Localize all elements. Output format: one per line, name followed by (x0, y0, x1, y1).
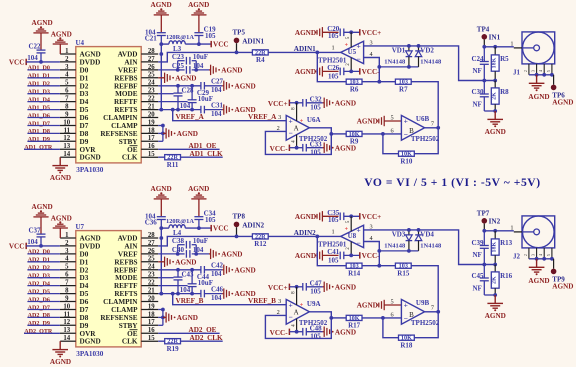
svg-text:23: 23 (148, 272, 155, 279)
svg-text:18: 18 (148, 127, 155, 134)
junction divider mid (482, 263, 486, 267)
svg-text:OVR: OVR (80, 330, 97, 338)
svg-text:11: 11 (64, 127, 71, 134)
svg-text:104: 104 (211, 86, 222, 94)
svg-text:NF: NF (473, 285, 482, 293)
svg-text:D4: D4 (80, 98, 89, 106)
svg-text:AD1_D0: AD1_D0 (28, 66, 50, 72)
svg-text:AD1_D5: AD1_D5 (28, 105, 50, 111)
svg-text:C32: C32 (310, 96, 323, 104)
junction pin4/diode rail (377, 249, 381, 253)
wire diode clamp rail (379, 66, 418, 68)
power port AGND (C23/C25) (209, 69, 210, 71)
U4 pin 19 stub (141, 125, 158, 127)
svg-text:15: 15 (148, 151, 155, 158)
svg-text:11: 11 (64, 311, 71, 318)
svg-text:IN2: IN2 (489, 218, 501, 226)
svg-text:−: − (288, 128, 292, 137)
svg-text:DVDD: DVDD (80, 58, 101, 66)
capacitor C31 104 (200, 106, 202, 114)
U7 pin 2 stub (60, 245, 76, 247)
svg-text:AGND: AGND (295, 29, 316, 37)
svg-text:AGND: AGND (50, 358, 71, 366)
svg-text:C30: C30 (472, 88, 485, 96)
U4 pin 27 stub (141, 61, 158, 63)
svg-text:5: 5 (547, 254, 551, 256)
resistor R13 18K (494, 231, 496, 239)
svg-text:AGND: AGND (357, 302, 378, 310)
svg-text:5: 5 (390, 115, 393, 122)
U6A pin 8 stub (296, 103, 298, 121)
U4 pin 21 stub (141, 109, 158, 111)
U7 pin 28 stub (141, 237, 158, 239)
svg-text:−: − (357, 54, 361, 63)
svg-text:24: 24 (148, 264, 155, 271)
svg-text:DVDD: DVDD (80, 242, 101, 250)
svg-text:CLAMPIN: CLAMPIN (103, 114, 138, 122)
svg-text:9: 9 (65, 295, 69, 302)
svg-text:3: 3 (278, 114, 281, 121)
svg-text:AD2_D4: AD2_D4 (28, 281, 50, 287)
wire VREF_A (173, 110, 287, 121)
svg-text:7: 7 (65, 280, 69, 287)
inductor L3 120R@1A (169, 41, 185, 44)
svg-text:AGND: AGND (485, 128, 506, 136)
svg-text:D1: D1 (80, 74, 89, 82)
svg-text:CLAMP: CLAMP (111, 306, 138, 314)
svg-text:ADIN1: ADIN1 (294, 45, 316, 53)
wire AD2_D0 (27, 253, 60, 255)
svg-text:C36: C36 (145, 219, 158, 227)
svg-text:16: 16 (148, 143, 155, 150)
resistor R11 22R (165, 155, 181, 160)
power port VCC (left) (25, 59, 27, 65)
wire IN1 node (484, 46, 514, 48)
svg-text:18K: 18K (491, 241, 497, 252)
wire AVDD riser to pin 28 (160, 44, 162, 110)
svg-text:AD1_D2: AD1_D2 (28, 82, 50, 88)
svg-text:26: 26 (148, 248, 155, 255)
svg-text:AD1_D9: AD1_D9 (28, 137, 50, 143)
svg-text:AVDD: AVDD (118, 51, 138, 59)
U4 pin 28 stub (141, 53, 158, 55)
resistor R15 103 (395, 263, 411, 268)
capacitor C28 104 (177, 86, 179, 93)
resistor R14 103 (346, 263, 362, 268)
svg-text:AD2_D2: AD2_D2 (28, 266, 50, 272)
svg-text:REFBS: REFBS (114, 74, 137, 82)
capacitor C26 105 (339, 68, 341, 76)
svg-text:105: 105 (310, 332, 321, 340)
U7 pin 24 stub (141, 269, 158, 271)
U7 pin 23 stub (141, 277, 158, 279)
resistor R19 22R (165, 339, 181, 344)
junction pin5/C20 (349, 214, 353, 218)
junction R9/R10/pin6 (381, 316, 385, 320)
junction R9/R10/pin6 (381, 132, 385, 136)
svg-text:B: B (409, 311, 414, 319)
wire AD1_D3 (27, 93, 60, 95)
power port VCC+ (U5) (359, 29, 361, 35)
U4 pin 5 stub (60, 85, 76, 87)
svg-text:3: 3 (65, 248, 69, 255)
svg-text:VCC-: VCC- (362, 68, 381, 76)
svg-text:1: 1 (510, 224, 513, 231)
power port AGND (REFSENSE) (163, 132, 166, 134)
svg-text:VCC+: VCC+ (268, 284, 288, 292)
svg-text:105: 105 (310, 148, 321, 156)
svg-text:8: 8 (65, 104, 69, 111)
U7 pin 1 stub (60, 237, 76, 239)
svg-text:C41: C41 (327, 248, 340, 256)
svg-text:REFTF: REFTF (114, 282, 138, 290)
svg-text:10: 10 (63, 119, 70, 126)
junctions REFTS row (171, 108, 175, 112)
wire V+ rail U5 (344, 31, 360, 33)
svg-text:U4: U4 (76, 39, 85, 47)
svg-text:105: 105 (328, 216, 339, 224)
svg-text:8: 8 (65, 288, 69, 295)
wire REFBF pin 24 row (158, 269, 201, 271)
svg-text:AD1_D1: AD1_D1 (28, 74, 50, 80)
U8 pin 2 stub (350, 242, 352, 256)
svg-text:R17: R17 (348, 322, 361, 330)
capacitor C37 104 (37, 233, 46, 235)
junction AVDD pin 28 (159, 236, 163, 240)
svg-text:REFTS: REFTS (114, 290, 137, 298)
capacitor C23 10uF (185, 57, 187, 65)
svg-text:2: 2 (65, 56, 69, 63)
svg-text:REFTS: REFTS (114, 106, 137, 114)
svg-text:AIN: AIN (124, 58, 138, 66)
ground AGND (divider) (494, 111, 496, 119)
svg-text:C24: C24 (472, 55, 485, 63)
svg-text:TPH2502: TPH2502 (411, 135, 440, 143)
svg-text:U5: U5 (348, 48, 357, 56)
svg-text:D8: D8 (80, 314, 89, 322)
svg-text:9: 9 (65, 111, 69, 118)
U7 pin 6 stub (60, 277, 76, 279)
svg-text:R16: R16 (500, 272, 513, 280)
U7 pin 26 stub (141, 253, 158, 255)
svg-text:+: + (300, 303, 304, 309)
diode VD2 1N4148 (418, 46, 420, 51)
capacitor C40 104 (185, 250, 187, 258)
power port AGND (REFBS pin 25) (158, 261, 164, 263)
wire R6 to input node (317, 236, 346, 265)
svg-text:19: 19 (148, 303, 155, 310)
svg-text:+: + (288, 301, 292, 310)
resistor R6 103 (346, 79, 362, 84)
svg-text:+: + (357, 225, 361, 234)
svg-text:D5: D5 (80, 290, 89, 298)
wire AD1_D6 (27, 117, 60, 119)
wire REFTF pin 22 (158, 285, 187, 287)
svg-text:NF: NF (473, 101, 482, 109)
U4 pin 15 stub (141, 156, 158, 158)
svg-text:105: 105 (310, 288, 321, 296)
junction riser / REFTS row (159, 108, 163, 112)
wire U6B output (425, 127, 439, 129)
wire V+ rail U6A (289, 286, 302, 288)
U4 pin 8 stub (60, 109, 76, 111)
svg-text:27: 27 (148, 56, 155, 63)
power port VCC+ (U5) (359, 213, 361, 219)
svg-text:AVDD: AVDD (118, 235, 138, 243)
svg-text:R6: R6 (350, 85, 359, 93)
svg-text:21: 21 (148, 104, 155, 111)
svg-text:ADIN2: ADIN2 (242, 221, 264, 229)
svg-text:AGND: AGND (235, 82, 256, 90)
svg-text:TP7: TP7 (477, 210, 490, 218)
svg-text:D6: D6 (80, 298, 89, 306)
power port VCC (AVDD rail) (210, 41, 212, 47)
svg-text:VCC+: VCC+ (362, 213, 382, 221)
svg-text:2: 2 (524, 70, 528, 72)
wire R7 to offset node (411, 82, 438, 128)
wire V+ rail U6A (289, 102, 302, 104)
wire AD2_D1 (27, 261, 60, 263)
svg-text:R15: R15 (397, 269, 410, 277)
svg-text:AGND: AGND (335, 328, 356, 336)
resistor R16 2K (494, 265, 496, 272)
svg-text:AGND: AGND (80, 235, 101, 243)
J2 ground pins (528, 248, 530, 259)
op-amp U8 TPH2501 (341, 225, 364, 247)
svg-text:B: B (409, 127, 414, 135)
wire REFTF pin 22 (158, 101, 187, 103)
svg-text:AD2_D1: AD2_D1 (28, 258, 50, 264)
svg-text:VCC+: VCC+ (268, 100, 288, 108)
svg-text:C37: C37 (29, 227, 42, 235)
svg-text:21: 21 (148, 288, 155, 295)
capacitor C44 10uF (191, 270, 193, 284)
svg-text:15: 15 (148, 335, 155, 342)
svg-text:1: 1 (65, 232, 69, 239)
svg-text:C45: C45 (472, 272, 485, 280)
junction AVDD pin 28 (159, 52, 163, 56)
svg-text:CLAMP: CLAMP (111, 122, 138, 130)
power port AGND (C27) (222, 85, 223, 87)
svg-text:AGND: AGND (528, 93, 549, 101)
resistor R12 22R (252, 234, 268, 239)
svg-text:VREF_A: VREF_A (176, 113, 205, 121)
svg-text:D0: D0 (80, 66, 89, 74)
wire AD2_CLK (158, 340, 223, 342)
svg-text:VREF_B: VREF_B (176, 297, 204, 305)
svg-text:AD1_D3: AD1_D3 (28, 90, 50, 96)
svg-text:R5: R5 (500, 55, 509, 63)
svg-text:VD2: VD2 (420, 47, 434, 55)
U4 pin 13 stub (60, 148, 76, 150)
diode VD4 1N4148 (418, 230, 420, 235)
svg-text:10uF: 10uF (193, 237, 208, 245)
wire IN2 node (484, 230, 514, 232)
wire CLAMP/REFSENSE/STBY tie (158, 125, 163, 127)
U4 pin 20 stub (141, 117, 158, 119)
svg-text:7: 7 (65, 96, 69, 103)
svg-text:TPH2502: TPH2502 (411, 319, 440, 327)
power port VCC (left) (25, 243, 27, 249)
svg-text:105: 105 (310, 104, 321, 112)
svg-text:1N4148: 1N4148 (384, 58, 406, 65)
junction pin8/C32 (295, 285, 299, 289)
junction riser / REFTS row (159, 292, 163, 296)
U7 pin 15 stub (141, 340, 158, 342)
U7 pin 17 stub (141, 324, 158, 326)
junction pin4/R6-R7 rail (377, 264, 381, 268)
wire AD1_D9 (27, 140, 60, 142)
svg-text:D3: D3 (80, 274, 89, 282)
wire AD2_D7 (27, 309, 60, 311)
svg-text:VO = VI / 5 + 1 (VI : -5V ~ +5: VO = VI / 5 + 1 (VI : -5V ~ +5V) (364, 176, 540, 189)
svg-text:ADIN2: ADIN2 (294, 229, 316, 237)
ground AGND (DGND pin 14) (59, 341, 61, 349)
svg-text:AD1_D4: AD1_D4 (28, 97, 50, 103)
svg-text:104: 104 (193, 62, 204, 70)
ground AGND (connector) (536, 259, 538, 268)
svg-text:12: 12 (63, 319, 70, 326)
svg-text:28: 28 (148, 48, 155, 55)
svg-text:OE: OE (127, 146, 138, 154)
svg-text:AGND: AGND (188, 185, 209, 193)
resistor R7 103 (395, 79, 411, 84)
wire AD1_D1 (27, 77, 60, 79)
U7 pin 7 stub (60, 285, 76, 287)
U4 pin 12 stub (60, 140, 76, 142)
wire VCC to DVDD pin 2 (26, 245, 60, 247)
svg-text:19: 19 (148, 119, 155, 126)
svg-text:3: 3 (532, 70, 536, 72)
svg-text:1N4148: 1N4148 (420, 58, 442, 65)
U7 pin 16 stub (141, 332, 158, 334)
junction diode bottom VD1 (407, 65, 411, 69)
svg-text:6: 6 (65, 88, 69, 95)
capacitor C20 105 (339, 29, 341, 37)
svg-text:TP5: TP5 (233, 28, 246, 36)
inductor L4 120R@1A (169, 225, 185, 228)
wire AD1_OE (158, 148, 219, 150)
svg-text:1: 1 (332, 229, 335, 236)
junction U6A out/R9 (329, 132, 333, 136)
svg-text:3: 3 (532, 254, 536, 256)
svg-text:NF: NF (473, 67, 482, 75)
svg-text:AGND: AGND (175, 74, 196, 82)
U7 pin 14 stub (60, 340, 76, 342)
svg-text:VREF: VREF (118, 250, 138, 258)
U5 pin 5 stub (350, 32, 352, 47)
svg-text:D6: D6 (80, 114, 89, 122)
op-amp U9A TPH2502 (286, 299, 309, 324)
wire AD2_D5 (27, 293, 60, 295)
junction C22/VCC/DVDD (39, 244, 43, 248)
junction pin2/C26 (349, 254, 353, 258)
svg-text:R10: R10 (400, 157, 413, 165)
svg-text:AGND: AGND (235, 266, 256, 274)
U4 pin 3 stub (60, 69, 76, 71)
svg-text:+: + (345, 42, 349, 48)
svg-text:C48: C48 (310, 324, 323, 332)
svg-text:R18: R18 (400, 341, 413, 349)
capacitor C32 105 (302, 99, 304, 107)
svg-text:AD1_OTR: AD1_OTR (24, 145, 53, 151)
svg-text:104: 104 (193, 246, 204, 254)
svg-text:AGND: AGND (221, 251, 242, 259)
svg-text:17: 17 (148, 135, 155, 142)
svg-text:TPH2501: TPH2501 (318, 56, 347, 64)
svg-text:120R@1A: 120R@1A (166, 34, 194, 41)
svg-text:AGND: AGND (177, 314, 198, 322)
svg-text:DGND: DGND (80, 338, 101, 346)
svg-text:C33: C33 (310, 140, 323, 148)
junction AVDD/C19 (197, 42, 201, 46)
svg-text:AGND: AGND (80, 51, 101, 59)
wire V- rail U6A (289, 147, 302, 149)
svg-text:U9B: U9B (416, 299, 430, 307)
svg-text:25: 25 (148, 72, 155, 79)
svg-text:105: 105 (205, 216, 216, 224)
U4 pin 16 stub (141, 148, 158, 150)
svg-text:VREF_B: VREF_B (248, 297, 276, 305)
svg-text:AGND: AGND (335, 283, 356, 291)
svg-text:U6A: U6A (307, 116, 321, 124)
svg-text:AGND: AGND (221, 67, 242, 75)
capacitor C24 NF (483, 47, 485, 62)
capacitor C48 105 (302, 328, 304, 336)
U4 pin 6 stub (60, 93, 76, 95)
svg-text:−: − (404, 130, 408, 139)
svg-text:4: 4 (65, 256, 69, 263)
svg-text:AD2_D3: AD2_D3 (28, 274, 50, 280)
svg-text:VCC: VCC (213, 41, 229, 49)
svg-text:22: 22 (148, 280, 155, 287)
svg-text:4: 4 (539, 70, 543, 72)
svg-text:REFSENSE: REFSENSE (100, 130, 137, 138)
wire AD1_D4 (27, 101, 60, 103)
junction AVDD/C19 (197, 226, 201, 230)
U4 pin 2 stub (60, 61, 76, 63)
wire R9 row (331, 317, 346, 319)
svg-text:AD1_D7: AD1_D7 (28, 121, 50, 127)
svg-text:AGND: AGND (295, 252, 316, 260)
resistor R18 10K (399, 335, 415, 340)
svg-text:24: 24 (148, 80, 155, 87)
svg-text:5: 5 (390, 299, 393, 306)
svg-text:23: 23 (148, 88, 155, 95)
U4 pin 23 stub (141, 93, 158, 95)
wire V- rail U6A (289, 331, 302, 333)
svg-text:R9: R9 (350, 138, 359, 146)
IC U7 3PA1030 body (76, 231, 141, 347)
svg-text:AGND: AGND (32, 19, 53, 27)
U7 pin 13 stub (60, 332, 76, 334)
U4 pin 26 stub (141, 69, 158, 71)
U7 pin 20 stub (141, 301, 158, 303)
wire VCC to DVDD pin 2 (26, 61, 60, 63)
wire AD2_D2 (27, 269, 60, 271)
J1 pin 1 stub (514, 47, 522, 49)
svg-text:4: 4 (65, 72, 69, 79)
svg-text:R12: R12 (254, 240, 267, 248)
junction pin5/C20 (349, 30, 353, 34)
svg-text:D7: D7 (80, 306, 89, 314)
junction AVDD/C21 (159, 42, 163, 46)
capacitor C27 104 (200, 82, 202, 90)
wire AD2_OTR (24, 332, 60, 334)
svg-text:D4: D4 (80, 282, 89, 290)
U4 pin 10 stub (60, 125, 76, 127)
U4 pin 7 stub (60, 101, 76, 103)
